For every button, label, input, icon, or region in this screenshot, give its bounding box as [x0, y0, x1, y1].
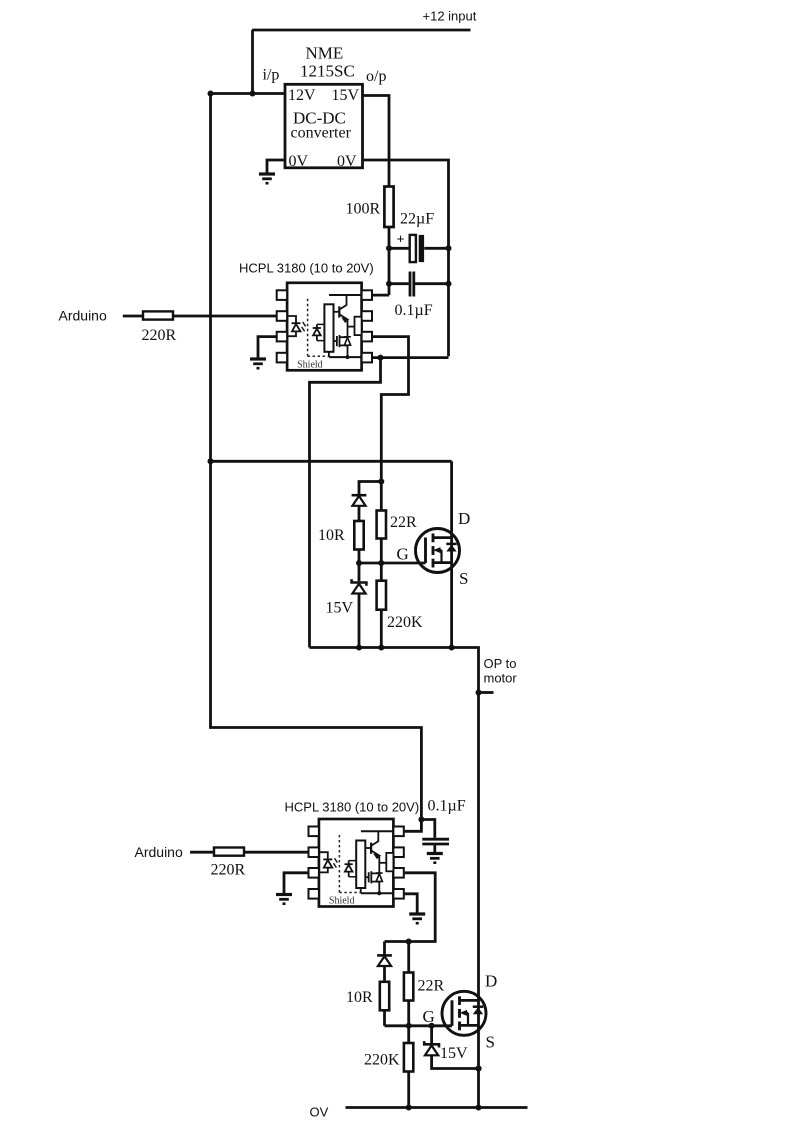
node top rail left	[208, 458, 214, 464]
svg-text:15V: 15V	[326, 600, 354, 617]
svg-text:G: G	[423, 1007, 435, 1026]
wire from +12 rail down to converter input	[251, 30, 254, 94]
svg-text:o/p: o/p	[366, 68, 386, 85]
wire 15V output to 100R	[363, 96, 390, 187]
node gate network top	[378, 479, 384, 485]
wire U2 pin6 output to gate network	[385, 873, 436, 942]
node OP to motor tap	[476, 690, 482, 696]
wire 0.1uF right lead	[415, 282, 449, 285]
wire source rail to output	[310, 648, 479, 1108]
node gate line 2 zener	[429, 1023, 435, 1029]
wire Arduino input 2	[190, 851, 309, 854]
svg-text:0.1µF: 0.1µF	[428, 798, 466, 815]
svg-text:15V: 15V	[332, 87, 360, 104]
wire D2 branch	[383, 942, 386, 1026]
node gate network 2 top	[406, 939, 412, 945]
wire 22uF right lead	[424, 247, 448, 250]
zener Z1 15V	[352, 579, 367, 593]
wire 12V input to DC-DC box	[211, 92, 286, 95]
ground C3	[427, 854, 443, 863]
wire U1 pin5 down to source rail	[310, 358, 381, 648]
svg-text:0V: 0V	[337, 153, 357, 170]
svg-text:i/p: i/p	[263, 67, 280, 84]
node 0.1uF right	[446, 281, 452, 287]
wire U2 pin3 to ground	[284, 873, 309, 893]
wire U1 pin8 to supply node	[372, 294, 389, 297]
svg-text:15V: 15V	[440, 1045, 468, 1062]
node OV rail output	[476, 1105, 482, 1111]
DC-DC converter module NME 1215SC	[285, 84, 363, 168]
node 22uF left	[386, 245, 392, 251]
svg-text:motor: motor	[484, 671, 518, 686]
node U2 supply	[418, 817, 424, 823]
resistor 22R2	[404, 973, 413, 1001]
wire OV bottom rail	[346, 1106, 528, 1109]
node converter input junction	[250, 91, 256, 97]
svg-text:0V: 0V	[289, 153, 309, 170]
wire gate-drive top rail	[211, 460, 452, 463]
resistor 220R input 2	[214, 848, 244, 856]
svg-text:220K: 220K	[387, 614, 423, 631]
wire D1 to 10R	[358, 506, 361, 563]
wire Q2 gate line	[385, 1024, 453, 1027]
wire Q1 gate line	[359, 562, 426, 565]
wire 22R2 leads	[407, 942, 410, 1026]
svg-text:0.1µF: 0.1µF	[395, 302, 433, 319]
svg-text:S: S	[486, 1033, 495, 1052]
wire U1 pin6 output to gate network	[372, 337, 409, 482]
svg-text:+12 input: +12 input	[423, 9, 477, 24]
optocoupler U1 HCPL 3180	[277, 283, 372, 371]
wire 0.1uF left lead	[389, 282, 409, 285]
wire Arduino input 1	[123, 315, 277, 318]
svg-text:NME: NME	[306, 44, 344, 63]
optocoupler U2 HCPL 3180	[309, 819, 404, 907]
wire +12 input top rail	[252, 29, 471, 32]
node gate line 2 22R	[406, 1023, 412, 1029]
node source rail 220K	[378, 645, 384, 651]
svg-text:Arduino: Arduino	[135, 844, 183, 860]
ground converter input 0V	[259, 174, 275, 183]
node source rail Q1	[449, 645, 455, 651]
zener Z2 15V	[424, 1041, 439, 1055]
ground U1 input	[250, 359, 266, 368]
capacitor C3 0.1uF plates	[422, 839, 449, 844]
wire OP to motor stub	[479, 691, 494, 694]
wire Q1 drain vertical	[450, 461, 453, 647]
resistor 22R	[377, 511, 386, 539]
node U1 pin5	[378, 355, 384, 361]
capacitor C1 22uF negative plate	[419, 235, 424, 262]
svg-text:12V: 12V	[288, 87, 316, 104]
node +12 rail junction	[208, 91, 214, 97]
svg-text:22R: 22R	[390, 514, 417, 531]
wire 100R bottom to C1/C2/pin8 junctions	[388, 227, 391, 295]
svg-text:22R: 22R	[418, 978, 445, 995]
MOSFET Q1	[416, 529, 460, 573]
wire 220K2 leads	[407, 1026, 410, 1108]
resistor 220K2	[404, 1043, 413, 1072]
node Z2 source	[475, 1065, 481, 1071]
wire U2 pin8 to supply node	[405, 820, 422, 832]
svg-text:D: D	[458, 509, 470, 528]
svg-text:D: D	[485, 972, 497, 991]
node OV rail 220K	[406, 1105, 412, 1111]
node 0.1uF left	[386, 281, 392, 287]
ground U2 input	[276, 895, 292, 904]
resistor 220R input 1	[143, 311, 173, 319]
svg-text:22µF: 22µF	[400, 211, 434, 228]
wire Z2 leads	[432, 1026, 479, 1069]
node gate line mid	[378, 560, 384, 566]
svg-text:220R: 220R	[211, 862, 246, 879]
svg-text:10R: 10R	[318, 527, 345, 544]
wire 220K leads	[380, 563, 383, 648]
svg-text:220K: 220K	[364, 1052, 400, 1069]
node source rail zener	[356, 645, 362, 651]
node 22uF right	[446, 245, 452, 251]
resistor 220K	[377, 581, 386, 610]
resistor 100R	[384, 187, 393, 228]
capacitor C2 0.1uF	[410, 272, 414, 297]
svg-text:HCPL 3180 (10 to 20V): HCPL 3180 (10 to 20V)	[285, 800, 420, 815]
svg-text:S: S	[459, 569, 468, 588]
svg-text:+: +	[397, 233, 405, 248]
svg-text:OP to: OP to	[484, 656, 517, 671]
svg-text:Arduino: Arduino	[59, 308, 107, 324]
wire U1 pin3 to ground	[258, 337, 277, 358]
MOSFET Q2	[442, 991, 486, 1035]
wire converter 0V output rail	[363, 160, 449, 356]
resistor 10R2	[380, 982, 389, 1011]
svg-text:100R: 100R	[346, 201, 381, 218]
capacitor C1 22uF positive plate	[410, 235, 416, 262]
wire 22R leads	[380, 482, 383, 564]
wire +12 left rail down and over to U2 Vcc	[211, 94, 422, 821]
wire converter 0V input to ground	[267, 160, 285, 173]
wire U1 pin5 to 0V rail	[372, 356, 449, 359]
svg-text:OV: OV	[310, 1105, 329, 1120]
diode D2	[377, 955, 392, 966]
diode D1	[352, 495, 367, 506]
svg-text:HCPL 3180 (10 to 20V): HCPL 3180 (10 to 20V)	[239, 261, 374, 276]
wire Z1 leads	[358, 563, 361, 648]
svg-text:220R: 220R	[142, 327, 177, 344]
wire C3 top lead	[421, 820, 434, 838]
svg-text:G: G	[397, 545, 409, 564]
node gate line left	[356, 560, 362, 566]
wire U2 pin5 to ground	[405, 894, 418, 913]
svg-text:converter: converter	[291, 125, 352, 142]
svg-text:10R: 10R	[346, 989, 373, 1006]
resistor 10R	[354, 521, 363, 550]
wire C3 bottom lead to ground	[433, 845, 436, 852]
wire diode branch from node	[359, 482, 381, 495]
wire 22uF left lead	[389, 247, 410, 250]
ground U2 pin5	[409, 914, 425, 923]
svg-text:1215SC: 1215SC	[300, 62, 355, 81]
